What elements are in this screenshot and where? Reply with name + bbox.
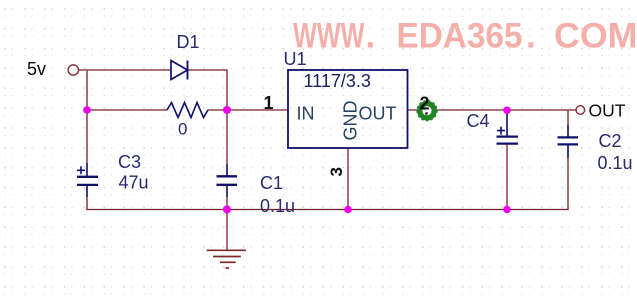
wire left node down to C3 top xyxy=(86,110,88,176)
junction node C4 top xyxy=(503,107,511,115)
wire left drop from top row to left node xyxy=(86,71,88,110)
wire C4 top lead xyxy=(506,110,508,136)
capacitor C1 lead stubs xyxy=(226,164,228,176)
svg-text:47u: 47u xyxy=(119,173,149,193)
wire U1 pin 2 to OUT terminal xyxy=(408,109,577,111)
wire C2 bottom to rail xyxy=(567,144,569,210)
junction node resistor/C1/pin1 xyxy=(223,106,231,114)
svg-text:EDA365: EDA365 xyxy=(397,17,523,56)
capacitor C3 plus sign xyxy=(77,166,85,174)
capacitor C4 plates xyxy=(497,137,519,144)
wire C1 bottom to bottom rail xyxy=(226,185,228,210)
svg-text:.: . xyxy=(526,17,536,56)
wire C3 bottom to bottom rail xyxy=(86,185,88,210)
svg-text:1117/3.3: 1117/3.3 xyxy=(304,71,371,91)
wire corner down to node at resistor output xyxy=(226,70,228,110)
svg-text:3: 3 xyxy=(327,167,346,176)
svg-text:OUT: OUT xyxy=(589,101,626,121)
svg-text:COM: COM xyxy=(554,17,637,56)
svg-text:2: 2 xyxy=(420,94,430,114)
wire C4 bottom to rail xyxy=(506,144,508,210)
resistor 0 xyxy=(167,103,208,118)
svg-text:C1: C1 xyxy=(260,173,283,193)
wire U1 pin 3 to rail xyxy=(347,148,349,210)
svg-text:OUT: OUT xyxy=(359,104,397,124)
svg-text:U1: U1 xyxy=(284,49,307,69)
terminal OUT xyxy=(576,106,585,115)
svg-text:1: 1 xyxy=(264,93,274,113)
svg-text:0.1u: 0.1u xyxy=(260,196,295,216)
capacitor C3 plates xyxy=(77,177,98,185)
svg-text:0.1u: 0.1u xyxy=(598,153,633,173)
wire C2 top lead xyxy=(567,111,569,137)
svg-text:IN: IN xyxy=(297,104,315,124)
svg-text:GND: GND xyxy=(341,101,361,141)
junction node C1 bottom/ground xyxy=(223,206,231,214)
diode D1 xyxy=(171,61,188,80)
capacitor C4 plus sign xyxy=(497,127,505,135)
capacitor C1 plates xyxy=(217,176,238,185)
capacitor C2 plates xyxy=(558,137,579,144)
svg-text:C4: C4 xyxy=(467,111,490,131)
op-amp U1 body xyxy=(288,70,408,148)
wire node to U1 pin 1 xyxy=(227,109,288,111)
junction node pin3/rail xyxy=(344,206,352,214)
svg-text:C2: C2 xyxy=(599,131,622,151)
junction node at left column xyxy=(83,106,91,114)
wire D1 cathode to top-right corner xyxy=(188,69,228,71)
terminal 5v xyxy=(68,65,78,75)
wire 5v terminal to D1 anode xyxy=(79,69,171,71)
probe marker on pin 2 net xyxy=(417,101,437,121)
svg-text:C3: C3 xyxy=(118,152,141,172)
ground xyxy=(207,250,246,268)
wire left node to resistor left lead xyxy=(87,109,167,111)
capacitor C3 lead stubs xyxy=(86,163,88,176)
svg-text:D1: D1 xyxy=(177,32,200,52)
junction node C4 bottom xyxy=(503,206,511,214)
capacitor C4 lead stub xyxy=(506,112,508,136)
svg-text:0: 0 xyxy=(178,120,187,139)
watermark WWW.EDA365.COM xyxy=(293,17,637,56)
svg-text:.: . xyxy=(366,17,376,56)
svg-text:5v: 5v xyxy=(27,59,46,79)
wire resistor right lead to node xyxy=(208,109,227,111)
capacitor C2 lead stubs xyxy=(567,125,569,137)
wire ground stem xyxy=(226,210,228,251)
wire node down to C1 top xyxy=(226,110,228,176)
wire bottom ground rail xyxy=(86,209,568,211)
